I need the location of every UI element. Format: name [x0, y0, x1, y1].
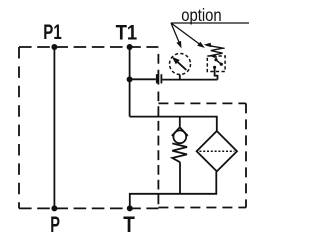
svg-text:P1: P1	[43, 21, 62, 44]
svg-text:T1: T1	[116, 21, 138, 44]
svg-text:option: option	[181, 5, 222, 25]
svg-text:T: T	[123, 212, 135, 237]
svg-text:P: P	[50, 212, 60, 237]
